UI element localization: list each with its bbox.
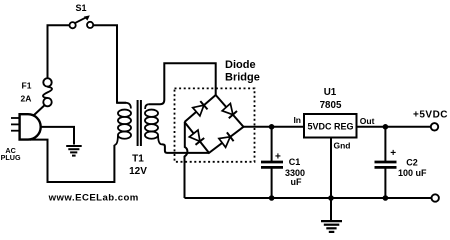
svg-text:www.ECELab.com: www.ECELab.com (48, 193, 139, 204)
terminal +5VDC (413, 109, 448, 130)
svg-text:2A: 2A (21, 93, 32, 103)
transformer T1 secondary winding (145, 104, 162, 144)
svg-text:C1: C1 (289, 157, 301, 167)
svg-text:7805: 7805 (320, 100, 342, 111)
node junction at C2 bottom (383, 195, 389, 201)
svg-text:F1: F1 (22, 80, 32, 90)
wire: fuse bottom to AC plug (34, 105, 45, 116)
diode D2 (top node to right node) (222, 104, 237, 119)
svg-text:100 uF: 100 uF (398, 168, 427, 178)
wire top-left: fuse top to S1 left terminal (48, 25, 70, 78)
svg-text:Diode: Diode (225, 59, 256, 71)
transformer T1 primary winding (114, 103, 131, 145)
capacitor C2 (375, 127, 397, 198)
transformer core (138, 100, 141, 146)
wire: plug middle to earth ground (41, 127, 74, 145)
ground (earth) below U1 (321, 221, 342, 232)
svg-text:12V: 12V (129, 166, 147, 177)
AC plug (1, 114, 41, 162)
switch S1 (70, 3, 94, 29)
label Diode Bridge (225, 59, 260, 83)
wire: U1 Gnd down to ground rail (330, 138, 332, 199)
svg-text:Out: Out (360, 116, 375, 126)
wire: plug bottom to transformer primary bottom (30, 140, 114, 182)
node junction at C1 top (269, 124, 275, 130)
fuse F1 (21, 78, 53, 106)
svg-text:U1: U1 (324, 87, 337, 98)
svg-text:In: In (293, 115, 301, 125)
svg-text:+: + (275, 152, 281, 163)
terminal: bottom right open circle (432, 194, 439, 201)
diode D4 (bottom node to right node) (219, 132, 234, 147)
wire: bridge left node down to ground rail (hops over AC wire) (185, 122, 188, 198)
svg-text:uF: uF (291, 177, 302, 187)
svg-text:C2: C2 (406, 158, 418, 168)
wire: bottom ground rail (185, 197, 432, 199)
ground (earth) near plug (66, 146, 82, 156)
svg-text:PLUG: PLUG (1, 153, 21, 162)
diode D1 (left node to top node) (193, 101, 208, 116)
diode D3 (left node to bottom node) (189, 130, 204, 145)
regulator U1 box (304, 114, 357, 138)
wire: S1 right terminal to transformer primary top (93, 25, 126, 103)
wire: U1 ground symbol stem (330, 198, 332, 220)
label T1 12V (129, 153, 147, 177)
svg-text:Bridge: Bridge (225, 72, 260, 84)
label C2 100 uF (398, 158, 427, 178)
node junction at C1 bottom (269, 195, 275, 201)
label C1 3300 uF (285, 157, 305, 187)
svg-text:T1: T1 (132, 153, 144, 164)
svg-text:+: + (390, 148, 396, 159)
svg-text:Gnd: Gnd (334, 140, 351, 150)
wire: secondary bottom to bridge bottom node (with step) (162, 144, 209, 153)
label U1 7805 (320, 87, 342, 111)
diode bridge dotted box (175, 88, 255, 161)
svg-text:+5VDC: +5VDC (413, 109, 448, 120)
wire: positive rail from bridge right node to U1 In (244, 126, 305, 128)
diode bridge diamond wires (185, 95, 244, 153)
wire: secondary top to bridge top node (149, 63, 216, 104)
capacitor C1 (261, 127, 283, 198)
svg-text:5VDC REG: 5VDC REG (307, 122, 353, 132)
svg-text:S1: S1 (75, 3, 86, 13)
node junction at C2 top (383, 124, 389, 130)
node junction at U1 gnd (328, 195, 334, 201)
wire: positive rail from U1 Out to +5VDC terminal (357, 126, 431, 128)
